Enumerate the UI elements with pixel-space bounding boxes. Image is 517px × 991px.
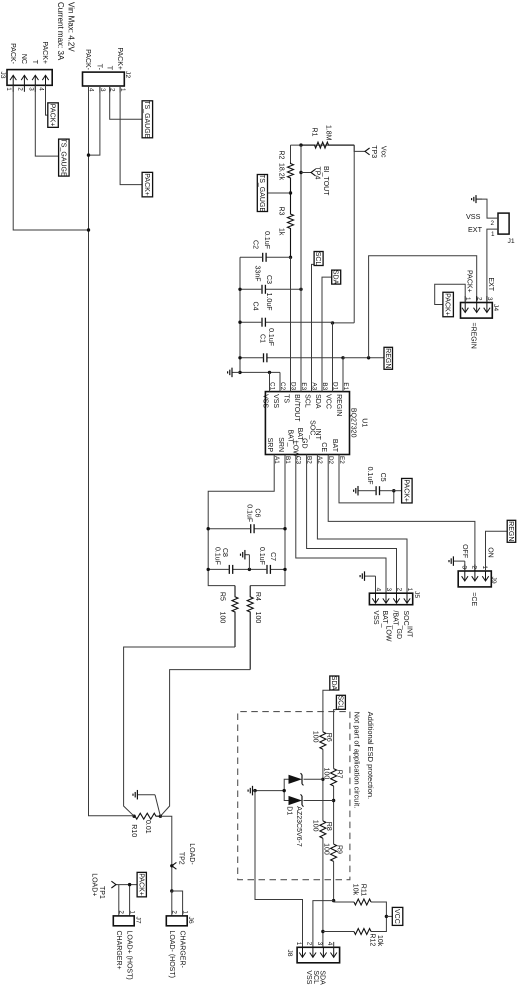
svg-text:LOAD- (HOST): LOAD- (HOST) xyxy=(168,931,175,978)
svg-text:PACK+: PACK+ xyxy=(465,270,472,293)
wire BAT wire xyxy=(339,455,394,503)
label J2 pin PACK- xyxy=(84,49,91,71)
connector J1 box xyxy=(498,213,509,234)
svg-text:Current max: 3A: Current max: 3A xyxy=(56,2,65,61)
svg-text:3: 3 xyxy=(385,588,392,592)
svg-text:SDA: SDA xyxy=(332,270,339,285)
U1 pin A2 designator xyxy=(316,456,323,464)
label Vcc at TP3 xyxy=(380,146,387,158)
wire SCL line xyxy=(334,710,337,901)
junction node VCC/C4 xyxy=(331,321,334,324)
label TP3 xyxy=(370,145,377,158)
wire SRP drop to R10 xyxy=(124,647,235,816)
U1 pin E2 name BAT xyxy=(331,439,338,453)
wire J6 pin2 stub xyxy=(171,891,173,916)
net flag SCL SCL left xyxy=(314,252,323,266)
label C4 refdes xyxy=(252,302,259,311)
label ON xyxy=(486,547,493,558)
resistor R11 10k xyxy=(354,898,371,906)
U1 pin D3 designator xyxy=(289,382,296,391)
net flag PACK+ PACK+ at J4 xyxy=(443,292,454,317)
junction node R10 bottom xyxy=(132,815,135,818)
wire R12 wire xyxy=(323,916,387,931)
resistor R8 100 xyxy=(319,821,327,838)
net flag TS_GAUGE TS_GAUGE at J2 xyxy=(142,100,153,138)
label R9 value 100 xyxy=(322,843,329,855)
svg-text:R2: R2 xyxy=(278,151,285,160)
svg-text:J5: J5 xyxy=(413,591,420,598)
svg-text:R12: R12 xyxy=(369,933,376,946)
junction node TP2 xyxy=(170,864,173,867)
svg-text:VCC: VCC xyxy=(324,394,331,409)
label C4 value 1.0uF xyxy=(265,293,272,311)
resistor R7 100 xyxy=(330,769,338,786)
label LOAD- (HOST) at J6 xyxy=(168,931,175,978)
ground D1 ground xyxy=(248,786,255,796)
svg-text:SCL: SCL xyxy=(314,252,321,266)
resistor R9 100 xyxy=(330,844,338,861)
label C6 value 0.1uF xyxy=(246,504,253,522)
svg-text:100: 100 xyxy=(312,731,319,743)
wire SCL jog to J8 pin2 xyxy=(313,901,334,948)
wire D1 common rail xyxy=(284,779,288,800)
net flag SCL SCL at ESD xyxy=(336,695,345,709)
svg-text:TS: TS xyxy=(282,394,289,403)
svg-text:2: 2 xyxy=(396,588,403,592)
svg-text:D1: D1 xyxy=(286,806,293,815)
svg-text:Not part of application circui: Not part of application circuit. xyxy=(353,712,362,809)
junction node D1 SDA xyxy=(321,778,324,781)
label C8 value 0.1uF xyxy=(214,547,221,565)
label SCL at J8 xyxy=(312,970,319,984)
svg-text:33nF: 33nF xyxy=(254,266,261,282)
label J3 pin PACK+ xyxy=(41,41,48,64)
svg-text:J4: J4 xyxy=(492,304,499,311)
wire J3 pin4 PACK+ wire xyxy=(46,85,48,115)
label EXT at J1 xyxy=(468,225,483,234)
svg-text:LOW: LOW xyxy=(291,441,298,457)
svg-text:2: 2 xyxy=(16,87,23,91)
note Not part of application circuit xyxy=(353,712,362,809)
U1 pin D3 name TS xyxy=(282,394,289,403)
junction node R10 top xyxy=(159,815,162,818)
svg-text:REGN: REGN xyxy=(384,348,391,368)
svg-text:R11: R11 xyxy=(360,884,367,896)
svg-text:100: 100 xyxy=(219,612,226,624)
junction node C6 bottom xyxy=(207,527,210,530)
svg-text:R3: R3 xyxy=(278,207,285,216)
svg-text:C1: C1 xyxy=(259,334,266,343)
connector J2 xyxy=(83,72,127,92)
U1 pin C3 designator xyxy=(295,456,302,465)
wire VSS wire to J8 xyxy=(255,791,303,948)
svg-text:R10: R10 xyxy=(130,824,137,837)
svg-text:R9: R9 xyxy=(336,845,343,854)
label PACK+ net at J4 xyxy=(465,270,472,293)
svg-text:VCC: VCC xyxy=(393,909,400,924)
U1 pin B2 designator xyxy=(305,456,312,464)
junction node D1 VSS xyxy=(253,789,256,792)
svg-text:2: 2 xyxy=(118,910,125,914)
junction node VSS/C1pin xyxy=(268,371,271,374)
label R5 value 100 xyxy=(219,612,226,624)
svg-text:3: 3 xyxy=(460,565,467,569)
svg-text:Vcc: Vcc xyxy=(380,146,387,158)
label R12 refdes xyxy=(369,933,376,946)
svg-text:1k: 1k xyxy=(278,228,285,236)
test point TP4 xyxy=(311,169,316,176)
junction node REGIN/J4 riser xyxy=(367,356,370,359)
U1 pin C1 designator xyxy=(268,382,275,391)
capacitor C1 0.1uF xyxy=(240,353,343,362)
svg-text:R1: R1 xyxy=(311,128,318,137)
wire BAT_GD wire xyxy=(307,455,397,594)
label CHARGER+ at J7 xyxy=(115,931,122,970)
svg-text:C2: C2 xyxy=(252,240,259,249)
label R11 refdes xyxy=(360,884,367,896)
U1 pin D2 name CE xyxy=(320,442,327,452)
svg-text:4: 4 xyxy=(326,942,333,946)
connector J3 xyxy=(5,70,52,92)
wire C7/C8 mid ground stub xyxy=(248,555,250,570)
U1 pin D1 name VCC xyxy=(324,394,331,409)
label VSS at J5 xyxy=(372,611,379,625)
junction node TP4 xyxy=(299,171,302,174)
label OFF xyxy=(461,544,468,558)
wire VCC rail vertical R1 column xyxy=(291,144,355,146)
wire D1 ground drop xyxy=(255,790,284,792)
wire CE wire to J9 xyxy=(328,455,475,572)
wire R10 ground diagonal xyxy=(155,795,160,817)
label R2 value 18.2k xyxy=(278,163,285,181)
U1 pin E3 name BI/TOUT xyxy=(293,394,300,422)
svg-text:AZ23C5V6-7: AZ23C5V6-7 xyxy=(295,806,302,847)
wire SDA row to flag xyxy=(322,277,332,392)
wire J1 pin2 to ground xyxy=(476,199,498,218)
svg-text:CHARGER-: CHARGER- xyxy=(179,931,186,969)
label R11 value 10k xyxy=(352,884,359,896)
net flag PACK+ PACK+ at J7 xyxy=(137,872,146,897)
wire VSS corner up xyxy=(240,371,280,373)
label BI_TOUT xyxy=(322,166,329,196)
U1 pin E1 name REGIN xyxy=(335,394,342,416)
label J5 xyxy=(413,591,420,598)
label VSS at J8 xyxy=(305,970,312,984)
label J3 pin NC xyxy=(20,54,27,64)
U1 pin C3 name BAT_LOW xyxy=(287,430,299,458)
wire J8 pin4 stub xyxy=(333,942,335,947)
label R5 refdes xyxy=(219,592,226,601)
svg-text:2: 2 xyxy=(476,297,483,301)
wire J2 pin3 T- jog xyxy=(89,86,100,155)
svg-text:C3: C3 xyxy=(265,275,272,284)
wire SRN drop to R10 xyxy=(160,670,250,817)
U1 pin B3 name SDA xyxy=(314,394,321,409)
wire J7 pin2 stub xyxy=(118,885,120,916)
label TP1 xyxy=(98,886,105,899)
wire SRP wire from A1 xyxy=(208,455,274,586)
net flag REGN REGN at J9 xyxy=(507,520,516,542)
svg-text:GD: GD xyxy=(395,629,402,640)
label SDA at J8 xyxy=(319,970,326,985)
svg-text:0.01: 0.01 xyxy=(144,820,151,834)
wire D1a stub xyxy=(304,778,323,780)
svg-text:BI/TOUT: BI/TOUT xyxy=(293,394,300,422)
resistor R3 1k xyxy=(288,193,294,257)
connector J4 xyxy=(461,296,493,318)
svg-text:1.0uF: 1.0uF xyxy=(265,293,272,311)
svg-text:T-: T- xyxy=(96,64,103,71)
capacitor C7 0.1uF xyxy=(249,565,285,574)
svg-text:LOAD-: LOAD- xyxy=(188,843,195,865)
wire TS to U1 pin D3 xyxy=(290,257,292,391)
label TP2 xyxy=(177,852,184,865)
svg-text:2: 2 xyxy=(491,220,495,227)
svg-text:J3: J3 xyxy=(0,71,6,78)
svg-text:1: 1 xyxy=(5,87,12,91)
wire J2 pin2 T wire xyxy=(110,86,142,119)
svg-text:EXT: EXT xyxy=(487,277,494,291)
label J2 pin T- xyxy=(96,64,103,71)
svg-text:PACK+: PACK+ xyxy=(143,173,150,196)
resistor R12 10k xyxy=(354,928,371,936)
svg-text:1.8M: 1.8M xyxy=(325,125,332,141)
svg-text:1: 1 xyxy=(491,231,495,238)
label =REGIN at J4 xyxy=(470,323,477,349)
svg-text:4: 4 xyxy=(88,88,95,92)
svg-text:LOW: LOW xyxy=(385,626,392,642)
label LOAD+ net xyxy=(90,873,97,896)
U1 pin E1 designator xyxy=(342,382,349,390)
label J7 xyxy=(134,917,141,924)
svg-text:OFF: OFF xyxy=(461,544,468,558)
label J3 xyxy=(0,71,6,78)
label R3 refdes xyxy=(278,207,285,216)
connector J5 xyxy=(369,588,413,605)
note Vin Max xyxy=(67,2,76,52)
wire D1b stub xyxy=(304,800,334,802)
net flag SDA SDA left xyxy=(332,270,341,285)
svg-text:BI_TOUT: BI_TOUT xyxy=(322,166,329,196)
svg-text:SDA: SDA xyxy=(314,394,321,409)
svg-text:SDA: SDA xyxy=(330,676,337,691)
label BAT_LOW at J5 xyxy=(381,611,392,642)
svg-text:SCL: SCL xyxy=(336,695,343,709)
wire SRN wire from B1 xyxy=(250,455,285,586)
svg-text:4: 4 xyxy=(375,588,382,592)
wire PACK+ wire to J4 pin1 xyxy=(435,284,466,304)
label J1 xyxy=(508,238,515,245)
svg-text:=CE: =CE xyxy=(470,592,477,606)
svg-text:100: 100 xyxy=(254,612,261,624)
svg-text:0.1uF: 0.1uF xyxy=(263,231,270,249)
label SOC_INT at J5 xyxy=(402,611,413,639)
junction node VSS rail corner xyxy=(238,371,241,374)
U1 pin A1 name SRP xyxy=(266,438,273,453)
junction node TS/C2 xyxy=(289,256,292,259)
svg-text:10k: 10k xyxy=(352,884,359,896)
label J2 pin T xyxy=(105,66,112,71)
junction node REGIN/E1 xyxy=(341,356,344,359)
svg-text:10k: 10k xyxy=(376,935,383,947)
ground J9 OFF ground xyxy=(449,556,465,566)
resistor R5 100 xyxy=(232,586,238,647)
label LOAD+ (HOST) at J7 xyxy=(126,931,133,980)
svg-text:VSS: VSS xyxy=(372,611,379,625)
svg-text:=REGIN: =REGIN xyxy=(470,323,477,349)
label R10 value 0.01 xyxy=(144,820,151,834)
U1 pin B3 designator xyxy=(321,382,328,390)
svg-text:LOAD+: LOAD+ xyxy=(90,873,97,896)
diode D1b zener xyxy=(289,794,304,806)
wire PACK- bus xyxy=(89,86,135,816)
net flag SDA SDA at ESD xyxy=(330,676,339,691)
junction node C7/C8 mid xyxy=(248,568,251,571)
junction node J7 pins xyxy=(128,883,131,886)
svg-text:C6: C6 xyxy=(254,508,261,517)
wire REGN to J9 pin1 xyxy=(486,531,508,571)
label C1 refdes xyxy=(259,334,266,343)
wire VCC drop to pin D1 row xyxy=(333,322,355,324)
svg-text:1: 1 xyxy=(181,910,188,914)
label J6 xyxy=(187,917,194,924)
svg-text:TS_GAUGE: TS_GAUGE xyxy=(258,174,265,212)
svg-text:R8: R8 xyxy=(325,822,332,831)
svg-text:BQ27320: BQ27320 xyxy=(350,408,357,438)
label R6 value 100 xyxy=(312,731,319,743)
label R10 refdes xyxy=(130,824,137,837)
svg-text:PACK+: PACK+ xyxy=(137,873,144,896)
svg-text:U1: U1 xyxy=(360,418,367,427)
U1 pin E3 designator xyxy=(300,382,307,390)
junction node PACK- bus T- xyxy=(87,153,90,156)
label TP4 xyxy=(314,167,321,180)
svg-text:CHARGER+: CHARGER+ xyxy=(115,931,122,970)
resistor R1 1.8M xyxy=(301,142,354,148)
svg-text:TP2: TP2 xyxy=(177,852,184,865)
junction node BI/R1 xyxy=(299,143,302,146)
svg-text:J8: J8 xyxy=(286,949,293,956)
svg-text:C4: C4 xyxy=(252,302,259,311)
wire VSS to U1 pin C1 xyxy=(269,372,271,391)
wire TS row left segment xyxy=(290,145,292,162)
junction node BAT/C5/PACK+ xyxy=(392,489,395,492)
svg-text:100: 100 xyxy=(312,820,319,832)
capacitor C4 1.0uF xyxy=(240,318,333,327)
wire TP3 stub xyxy=(354,145,365,151)
svg-text:TS_GAUGE: TS_GAUGE xyxy=(143,100,150,138)
junction node D1 SCL xyxy=(332,799,335,802)
svg-text:0.1uF: 0.1uF xyxy=(267,328,274,346)
label C3 value 33nF xyxy=(254,266,261,282)
wire TS_GAUGE flag stub xyxy=(267,192,291,194)
svg-text:100: 100 xyxy=(322,843,329,855)
label U1 refdes xyxy=(360,418,367,427)
label R3 value 1k xyxy=(278,228,285,236)
U1 pin B1 designator xyxy=(284,456,291,464)
junction node R11/R12/VCC xyxy=(385,915,388,918)
svg-text:TS_GAUGE: TS_GAUGE xyxy=(59,139,66,177)
label LOAD- net xyxy=(188,843,195,865)
wire LOAD- wire xyxy=(160,816,171,891)
wire VCC to U1 pin D1 xyxy=(332,323,334,392)
net flag TS_GAUGE TS_GAUGE near R3 xyxy=(257,174,267,212)
label R4 value 100 xyxy=(254,612,261,624)
ground VSS rail ground xyxy=(228,368,240,378)
svg-text:C7: C7 xyxy=(269,552,276,561)
svg-text:PACK-: PACK- xyxy=(84,49,91,71)
svg-text:PACK+: PACK+ xyxy=(49,104,56,127)
wire REGIN to U1 pin E1 xyxy=(342,358,344,392)
U1 pin B1 name SRN xyxy=(277,437,284,452)
wire R11 wire xyxy=(334,902,387,916)
resistor R2 18.2k xyxy=(288,163,294,194)
U1 pin B2 name BAT_GD xyxy=(296,428,308,449)
capacitor C2 0.1uF xyxy=(240,253,291,262)
svg-text:GD: GD xyxy=(301,438,308,449)
svg-text:SRP: SRP xyxy=(266,438,273,453)
svg-text:R4: R4 xyxy=(254,592,261,601)
resistor R4 100 xyxy=(247,586,253,670)
svg-text:EXT: EXT xyxy=(468,225,483,234)
label R1 value 1.8M xyxy=(325,125,332,141)
svg-text:0.1uF: 0.1uF xyxy=(366,467,373,485)
U1 pin A3 designator xyxy=(310,382,317,390)
junction node J6 pins xyxy=(170,889,173,892)
junction node SCL/R11 xyxy=(332,899,335,902)
net flag REGN REGN main xyxy=(384,347,393,369)
U1 pin C2 designator xyxy=(279,382,286,391)
junction node C3 rail xyxy=(238,288,241,291)
U1 pin E2 designator xyxy=(338,456,345,464)
label R12 value 10k xyxy=(376,935,383,947)
U1 pin C2 name VSS xyxy=(272,394,279,408)
svg-text:CE: CE xyxy=(320,442,327,452)
wire J5 pin4 VSS wire xyxy=(375,576,377,593)
label R7 refdes xyxy=(336,770,343,779)
connector J7 xyxy=(113,910,135,925)
svg-text:1: 1 xyxy=(406,588,413,592)
label C2 value 0.1uF xyxy=(263,231,270,249)
svg-text:VSS: VSS xyxy=(466,212,481,221)
svg-text:100: 100 xyxy=(322,768,329,780)
svg-text:0.1uF: 0.1uF xyxy=(214,547,221,565)
wire J3 pin1 PACK- wire xyxy=(13,85,88,230)
svg-text:INT: INT xyxy=(314,429,321,441)
svg-text:1: 1 xyxy=(128,910,135,914)
svg-text:PACK+: PACK+ xyxy=(402,479,409,502)
wire TP4 stub xyxy=(301,172,311,174)
junction node C7 top xyxy=(283,568,286,571)
svg-text:VSS: VSS xyxy=(305,970,312,984)
test point TP2 xyxy=(172,862,177,869)
svg-text:C5: C5 xyxy=(379,473,386,482)
label J8 xyxy=(286,949,293,956)
svg-text:2: 2 xyxy=(305,942,312,946)
wire BI/TOUT row xyxy=(300,145,302,392)
wire VCC flag stub xyxy=(386,915,392,917)
label J2 pin PACK+ xyxy=(116,47,123,70)
label CHARGER- at J6 xyxy=(179,931,186,969)
label C6 refdes xyxy=(254,508,261,517)
wire SDA line xyxy=(323,690,330,947)
label J1 pin2 number xyxy=(491,220,495,227)
wire VCC top rail xyxy=(353,145,355,323)
wire J1 pin1 EXT wire xyxy=(487,229,498,301)
label R8 refdes xyxy=(325,822,332,831)
label VSS at J1 xyxy=(466,212,481,221)
U1 pin D2 designator xyxy=(327,456,334,465)
